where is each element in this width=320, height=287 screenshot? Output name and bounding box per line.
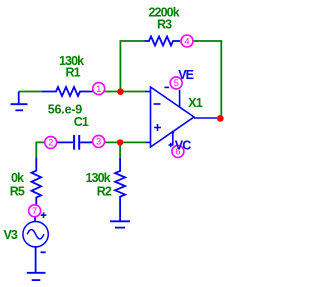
node 4 xyxy=(181,35,193,47)
wire: feedback vertical + top run to R3 xyxy=(120,41,144,92)
svg-text:1: 1 xyxy=(96,84,101,94)
source V3 xyxy=(23,217,48,273)
node 5 xyxy=(170,77,182,89)
svg-text:0k: 0k xyxy=(11,171,24,185)
VC pin polarity plus mark xyxy=(169,143,173,147)
svg-text:3: 3 xyxy=(96,137,101,147)
ground (below V3) xyxy=(27,273,46,280)
V3 plus mark xyxy=(41,212,47,218)
resistor R5 xyxy=(31,158,41,205)
wire: junction down to R2 xyxy=(119,142,121,158)
wire: R3 right to output vertical xyxy=(193,41,222,118)
svg-text:VE: VE xyxy=(178,68,193,82)
ground (left of R1) xyxy=(11,92,28,111)
svg-text:130k: 130k xyxy=(86,171,111,185)
node 2 xyxy=(45,136,57,148)
node 6 xyxy=(172,145,184,157)
resistor R1 xyxy=(42,87,93,96)
op-amp X1 xyxy=(145,87,217,147)
wire: ground to R1 left xyxy=(19,91,42,93)
svg-text:VC: VC xyxy=(175,139,191,153)
node 7 xyxy=(29,205,41,217)
VE pin polarity minus mark xyxy=(164,86,169,88)
svg-text:R2: R2 xyxy=(97,185,112,199)
svg-text:R5: R5 xyxy=(10,185,25,199)
junction dot at output xyxy=(217,115,224,122)
svg-text:2: 2 xyxy=(48,138,53,148)
svg-text:R3: R3 xyxy=(157,18,172,32)
svg-text:4: 4 xyxy=(184,36,189,46)
capacitor C1 xyxy=(57,135,93,150)
junction dot at plus input xyxy=(117,139,123,145)
resistor R2 xyxy=(115,158,125,221)
wire: node2 elbow down to R5 xyxy=(36,142,44,158)
wire: node3 to op-amp plus input (through junction) xyxy=(105,141,146,143)
node 3 xyxy=(93,135,105,147)
junction dot at minus input xyxy=(117,88,124,95)
V3 minus mark xyxy=(41,251,46,253)
svg-text:X1: X1 xyxy=(188,96,202,110)
wire: node1 to op-amp minus input (through junction) xyxy=(105,91,145,93)
svg-text:7: 7 xyxy=(32,206,37,216)
node 1 xyxy=(93,83,105,95)
svg-text:R1: R1 xyxy=(66,66,81,80)
svg-text:C1: C1 xyxy=(74,115,89,129)
resistor R3 xyxy=(145,37,181,46)
ground (below R2) xyxy=(110,221,130,227)
svg-text:V3: V3 xyxy=(4,228,18,242)
